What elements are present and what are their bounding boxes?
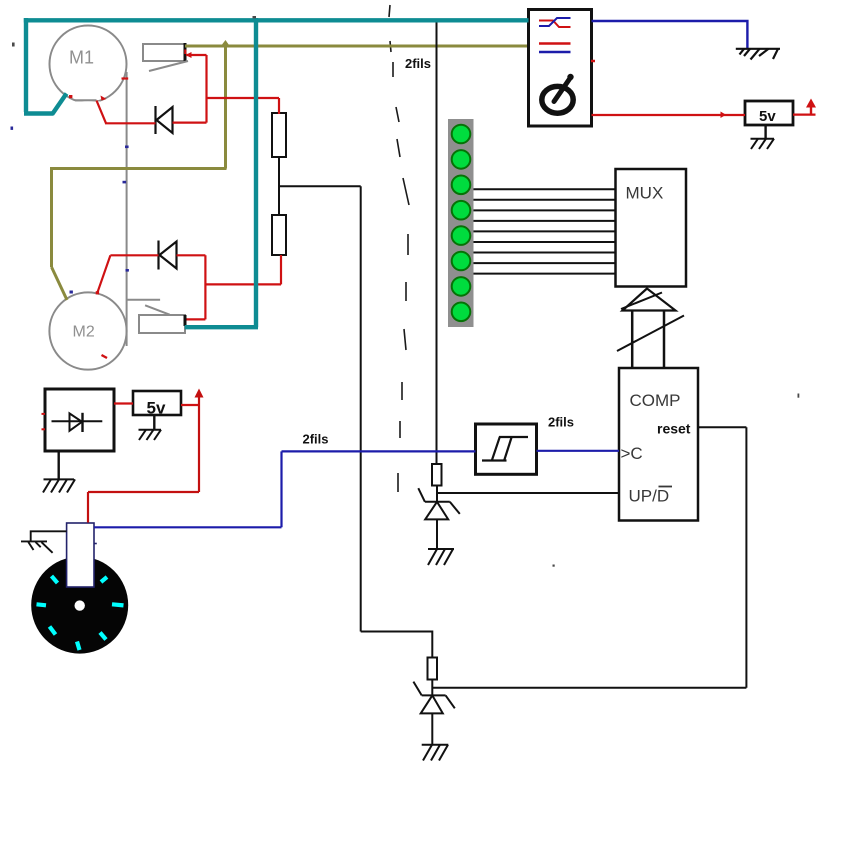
svg-text:COMP: COMP: [630, 391, 681, 410]
red tick on supply wire: [721, 112, 727, 119]
opto fork sensor: [67, 523, 94, 587]
stray mark above teal junction: [253, 16, 257, 18]
ground below Z1: [428, 549, 454, 565]
red M2 terminal dot top: [96, 291, 99, 294]
ground left of fork: [21, 541, 53, 552]
wire Z1 junction to COMP UP/D: [437, 492, 619, 494]
red M1 motor terminal dot: [69, 95, 72, 98]
stray tick right margin: [798, 394, 800, 398]
svg-text:MUX: MUX: [626, 184, 664, 203]
stray mark left margin lower (blue): [11, 127, 14, 130]
ground top-right: [736, 49, 780, 60]
LED bar module: [448, 119, 474, 327]
red wire U5 to left 5v box: [114, 402, 133, 404]
U5 photodiode cathode bar: [81, 413, 83, 432]
wire fork to left ground: [31, 531, 67, 541]
encoder disk: [31, 557, 128, 654]
motor M2: [49, 292, 126, 369]
red tick crossing shaft line: [122, 77, 129, 79]
fork right nub: [94, 543, 97, 545]
fold line (dashed): [389, 5, 409, 492]
svg-text:2fils: 2fils: [405, 56, 431, 71]
regulator 5v box (left): [133, 391, 181, 415]
stray dot mid page: [553, 565, 555, 567]
red supply arrow left + drop to fork: [198, 392, 200, 492]
wire right 5v box to ground: [764, 125, 766, 139]
stray blue tick on shaft line 2: [123, 181, 127, 184]
stray blue tick on M2 edge: [70, 291, 73, 294]
bus slash upper: [621, 293, 662, 310]
encoder tick NW: [52, 576, 58, 583]
wire Z2 junction to reset loop: [432, 687, 746, 689]
red arrow at S1 contact: [186, 52, 192, 58]
encoder tick S: [77, 642, 80, 651]
wire reset loop vertical: [745, 427, 747, 688]
encoder tick W: [37, 604, 47, 605]
LED 7: [452, 277, 471, 296]
ground below left 5v box: [139, 430, 162, 440]
ground below U5: [43, 479, 75, 492]
red wire M2 circuit: [98, 255, 282, 319]
resistor R4: [432, 464, 442, 486]
resistor R5: [428, 658, 438, 680]
motor M1 flat bottom patch: [70, 101, 100, 105]
motor M1 brush chord: [75, 99, 97, 101]
wire R1 to R2: [278, 157, 280, 215]
red wire down-left to fork: [88, 491, 199, 493]
MUX U1: [616, 169, 687, 287]
limit switch S2 lever: [145, 305, 170, 314]
olive wire: S1 to junction top: [51, 45, 529, 300]
red supply arrow right: [810, 103, 812, 115]
red arrow tick on M1 diagonal: [101, 96, 107, 101]
encoder hub hole: [75, 600, 85, 610]
limit switch S1 lever: [149, 61, 188, 71]
hysteresis trigger U4: [476, 424, 537, 474]
wire teal-top tap down to R4: [436, 19, 438, 464]
ground below Z2: [422, 745, 449, 761]
bus slash lower: [617, 316, 684, 352]
limit switch S2 contact edge: [184, 315, 187, 326]
zener diode Z2: [413, 680, 454, 745]
svg-text:5v: 5v: [759, 108, 776, 125]
zener diode Z1: [418, 486, 460, 550]
red wire M1: motor to diode diagonal: [97, 55, 280, 123]
wire resistor junction to long vertical: [279, 185, 361, 187]
motor M1: [50, 26, 127, 103]
svg-text:2fils: 2fils: [303, 432, 329, 447]
teal supply wire (thick): [24, 18, 529, 327]
encoder tick E: [112, 604, 124, 605]
stray blue tick on shaft line 3: [126, 269, 129, 272]
node shaft line (gray vertical through M1/M2): [126, 72, 128, 346]
limit switch S2 body: [139, 315, 185, 333]
photo sensor box U5: [45, 389, 114, 451]
U5 photodiode triangle: [70, 413, 83, 430]
encoder tick SE: [100, 633, 106, 640]
red wire left 5v to fork supply: [181, 404, 200, 406]
LED 6: [452, 252, 471, 271]
U5 red nub lower: [42, 428, 46, 430]
LED 4: [452, 201, 471, 220]
control box U3 (switch/motor unit): [529, 10, 592, 127]
svg-text:reset: reset: [657, 421, 691, 437]
U3 crossover contact blue: [539, 18, 571, 26]
LED 5: [452, 226, 471, 245]
U5 red nub upper: [42, 413, 46, 415]
LED bus wires to MUX: [474, 189, 616, 273]
resistor R2: [272, 215, 286, 255]
red tick on S1 contact edge: [184, 50, 186, 55]
diode D2: [159, 241, 177, 270]
red wire right 5v to supply arrow: [793, 113, 816, 115]
limit switch S2 stub wire: [127, 299, 161, 301]
red M2 terminal tick bottom: [102, 355, 108, 358]
red wire into fork top: [87, 492, 89, 523]
limit switch S1 contact edge: [184, 43, 187, 62]
blue wire fork to trigger (2fils): [94, 451, 619, 528]
LED 3: [452, 176, 471, 195]
wire long vertical left bus: [360, 186, 362, 631]
svg-text:2fils: 2fils: [548, 415, 574, 430]
U3 motor dial symbol: [542, 78, 573, 114]
stray mark left margin upper: [12, 43, 15, 47]
ground below right 5v box: [751, 139, 775, 149]
LED 2: [452, 150, 471, 169]
bus arrow head MUX to COMP: [623, 289, 676, 311]
U3 red nub on right edge: [591, 60, 595, 63]
LED 8: [452, 303, 471, 322]
svg-text:>C: >C: [621, 444, 643, 463]
U3 red supply line: [539, 42, 571, 45]
bus line right: [663, 311, 666, 369]
olive arrowhead at junction: [221, 40, 231, 47]
LED 1: [452, 125, 471, 144]
wire COMP reset to loop: [698, 426, 746, 428]
encoder tick NE: [101, 577, 107, 582]
diode D1: [156, 106, 173, 134]
wire U5 to ground: [58, 451, 60, 479]
U3 dial knob end: [567, 74, 573, 80]
U5 photodiode line: [52, 420, 103, 422]
COMP U2 (counter): [619, 368, 698, 521]
svg-text:M1: M1: [69, 48, 94, 68]
stray blue tick on shaft line 1: [125, 146, 129, 149]
hysteresis symbol: [482, 437, 528, 461]
resistor R1: [272, 113, 286, 157]
red wire U3 to right 5v box: [592, 114, 746, 116]
UP/D overline: [659, 486, 673, 488]
wire 5v box to ground: [153, 415, 155, 430]
encoder tick SW: [50, 627, 56, 635]
wire bottom jog to R5: [361, 632, 433, 658]
svg-text:UP/D: UP/D: [629, 487, 670, 506]
regulator 5v box (right): [745, 101, 793, 125]
U3 crossover contact red: [539, 21, 571, 28]
blue wire U3 to top-right ground: [592, 21, 748, 49]
bus line left: [631, 311, 634, 369]
limit switch S1 body: [143, 44, 185, 61]
svg-text:5v: 5v: [147, 399, 166, 418]
svg-text:M2: M2: [73, 324, 95, 341]
U3 blue supply line: [539, 51, 571, 54]
